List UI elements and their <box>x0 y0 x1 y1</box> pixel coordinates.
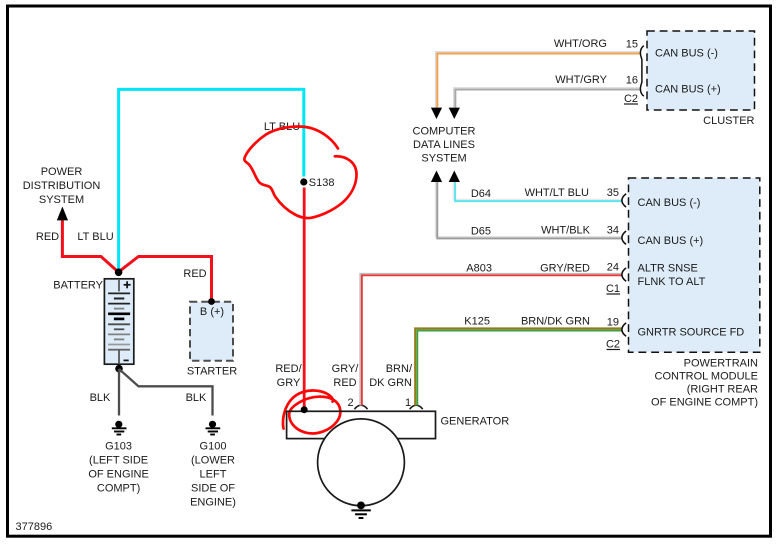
svg-text:15: 15 <box>626 39 638 51</box>
wire D64 WHT/LT BLU to PCM pin35 (two-tone) <box>454 182 623 200</box>
svg-text:D64: D64 <box>471 188 491 200</box>
svg-text:FLNK TO ALT: FLNK TO ALT <box>638 276 706 288</box>
node battery positive junction <box>115 269 123 277</box>
ground G103 <box>112 421 127 435</box>
battery B1 <box>104 279 133 364</box>
svg-text:RED: RED <box>333 377 356 389</box>
wire BLK battery to G100 <box>119 369 213 416</box>
svg-text:377896: 377896 <box>16 521 53 533</box>
wire RED S138 to generator <box>303 188 306 408</box>
svg-text:G100: G100 <box>200 441 227 453</box>
svg-text:2: 2 <box>347 397 353 409</box>
svg-text:WHT/BLK: WHT/BLK <box>541 225 591 237</box>
svg-text:(LOWER: (LOWER <box>191 455 235 467</box>
generator body rect <box>287 411 436 438</box>
svg-text:SIDE OF: SIDE OF <box>191 483 235 495</box>
svg-text:BATTERY: BATTERY <box>53 280 103 292</box>
pin 19 connector arc <box>622 323 626 336</box>
svg-text:BRN/DK GRN: BRN/DK GRN <box>521 316 590 328</box>
svg-text:WHT/ORG: WHT/ORG <box>554 38 607 50</box>
svg-text:LEFT: LEFT <box>200 469 227 481</box>
svg-text:D65: D65 <box>471 226 491 238</box>
svg-text:GRY: GRY <box>277 377 301 389</box>
svg-text:(LEFT SIDE: (LEFT SIDE <box>89 455 148 467</box>
svg-text:C2: C2 <box>606 339 620 351</box>
annotation circle around generator junction (red freehand) <box>283 390 340 433</box>
wire D65 WHT/BLK to PCM pin34 (two-tone) <box>436 182 623 237</box>
svg-text:CAN BUS (+): CAN BUS (+) <box>655 84 721 96</box>
svg-text:34: 34 <box>607 225 619 237</box>
svg-text:WHT/LT BLU: WHT/LT BLU <box>525 187 589 199</box>
generator circle <box>318 419 405 506</box>
cluster box <box>647 31 755 110</box>
pin 1 connector arc <box>410 405 423 409</box>
pin 35 connector arc <box>622 194 626 207</box>
svg-text:B (+): B (+) <box>200 306 224 318</box>
svg-text:GENERATOR: GENERATOR <box>441 416 510 428</box>
ground at generator <box>351 502 370 519</box>
ground G100 <box>206 421 221 435</box>
wire BRN/DK GRN generator pin1 to PCM pin19 (two-tone) <box>415 328 622 405</box>
svg-text:35: 35 <box>607 187 619 199</box>
svg-text:COMPUTER: COMPUTER <box>413 126 476 138</box>
svg-text:STARTER: STARTER <box>187 366 237 378</box>
arrow down (WHT/GRY) <box>449 108 460 119</box>
arrow to power distribution system <box>57 207 68 221</box>
svg-text:(RIGHT REAR: (RIGHT REAR <box>687 384 758 396</box>
starter box <box>190 302 233 361</box>
svg-text:BLK: BLK <box>90 392 111 404</box>
svg-text:BRN/: BRN/ <box>386 363 413 375</box>
svg-text:ALTR SNSE: ALTR SNSE <box>638 263 698 275</box>
pin 24 connector arc <box>622 268 626 281</box>
wire WHT/GRY cluster pin16 to datalines arrow (two-tone) <box>454 88 641 108</box>
svg-text:GNRTR SOURCE FD: GNRTR SOURCE FD <box>638 327 745 339</box>
svg-text:COMPT): COMPT) <box>97 483 140 495</box>
svg-text:CLUSTER: CLUSTER <box>703 115 754 127</box>
svg-text:DISTRIBUTION: DISTRIBUTION <box>23 180 101 192</box>
node generator field junction <box>301 406 308 413</box>
wire LT BLU (cyan) battery to S138 <box>119 89 304 271</box>
svg-text:POWER: POWER <box>41 166 83 178</box>
svg-text:RED: RED <box>36 231 59 243</box>
svg-text:GRY/RED: GRY/RED <box>540 263 590 275</box>
svg-text:CONTROL MODULE: CONTROL MODULE <box>655 371 759 383</box>
svg-text:DATA LINES: DATA LINES <box>413 139 475 151</box>
svg-text:RED/: RED/ <box>275 363 302 375</box>
svg-text:SYSTEM: SYSTEM <box>39 194 84 206</box>
svg-text:24: 24 <box>607 262 619 274</box>
svg-text:OF ENGINE COMPT): OF ENGINE COMPT) <box>651 397 758 409</box>
svg-text:POWERTRAIN: POWERTRAIN <box>684 358 758 370</box>
svg-text:WHT/GRY: WHT/GRY <box>555 74 607 86</box>
svg-text:K125: K125 <box>464 316 490 328</box>
svg-text:ENGINE): ENGINE) <box>190 497 236 509</box>
arrow down (WHT/ORG) <box>431 108 442 119</box>
svg-text:19: 19 <box>607 317 619 329</box>
annotation circle around S138 (red freehand) <box>244 127 356 219</box>
svg-text:CAN BUS (-): CAN BUS (-) <box>638 197 701 209</box>
svg-text:CAN BUS (-): CAN BUS (-) <box>655 48 718 60</box>
node battery negative terminal <box>115 365 123 373</box>
pin 34 connector arc <box>622 231 626 244</box>
pin 2 connector arc <box>355 405 368 409</box>
wire WHT/ORG cluster pin15 to datalines arrow (two-tone) <box>436 52 641 108</box>
svg-text:C2: C2 <box>624 93 638 105</box>
svg-text:GRY/: GRY/ <box>332 363 360 375</box>
wire BLK battery to G103 <box>118 369 120 416</box>
wire RED left from power distribution arrow to battery <box>62 218 118 272</box>
svg-text:A803: A803 <box>466 263 492 275</box>
svg-text:16: 16 <box>626 75 638 87</box>
svg-text:1: 1 <box>405 397 411 409</box>
pin 15/16 connector bracket C2 <box>640 46 644 96</box>
svg-text:RED: RED <box>183 268 206 280</box>
svg-text:CAN BUS (+): CAN BUS (+) <box>638 235 704 247</box>
svg-text:LT BLU: LT BLU <box>77 231 113 243</box>
svg-text:SYSTEM: SYSTEM <box>421 152 466 164</box>
arrow up (D65) <box>431 171 442 183</box>
node starter B+ terminal <box>208 298 215 305</box>
svg-text:C1: C1 <box>606 283 620 295</box>
svg-text:OF ENGINE: OF ENGINE <box>88 469 149 481</box>
svg-text:G103: G103 <box>105 441 132 453</box>
node S138 <box>300 178 307 185</box>
PCM box <box>629 178 760 352</box>
wire GRY/RED generator pin2 to PCM pin24 (two-tone) <box>360 274 622 406</box>
arrow up (D64) <box>449 171 460 183</box>
svg-text:BLK: BLK <box>186 392 207 404</box>
svg-text:S138: S138 <box>309 177 335 189</box>
wire RED battery to starter <box>119 257 212 300</box>
svg-text:DK GRN: DK GRN <box>369 377 412 389</box>
